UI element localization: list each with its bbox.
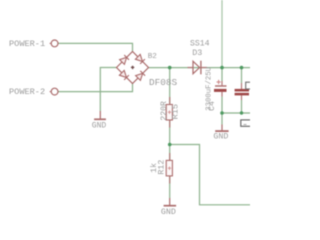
resistor R12 (149, 153, 172, 184)
svg-text:DF08S: DF08S (149, 77, 178, 88)
bridge origin mark (131, 66, 134, 69)
bridge diode bottom-right (136, 71, 146, 81)
junction rail-C4 (220, 66, 224, 70)
label box C (cut off at edge) (246, 82, 252, 89)
bridge diode bottom-left (119, 70, 128, 80)
junction C4-C1 ground (220, 111, 224, 115)
svg-text:GND: GND (161, 208, 176, 217)
svg-text:GND: GND (213, 133, 228, 142)
wire rail down to R15 R12 (169, 68, 171, 160)
svg-text:B2: B2 (148, 53, 158, 61)
label box bottom-right (cut off at edge) (241, 120, 251, 126)
svg-text:POWER-2: POWER-2 (9, 87, 45, 97)
svg-text:D3: D3 (192, 48, 202, 58)
bridge diode top-right (135, 54, 145, 64)
junction R15-R12 tap (168, 143, 172, 147)
wire top vertical input (221, 0, 223, 68)
wire POWER-1 to bridge AC1 (58, 43, 133, 51)
bridge diode top-left (120, 55, 129, 64)
capacitor C1 (235, 83, 249, 100)
svg-text:GND: GND (92, 121, 107, 130)
svg-text:C4: C4 (208, 101, 217, 111)
connector POWER-2 pad (51, 88, 58, 95)
connector POWER-1 pad (51, 40, 58, 47)
wire main rail (149, 67, 251, 69)
ground GND under bridge (92, 111, 107, 130)
svg-text:R15: R15 (171, 104, 181, 119)
wire C4 branch (221, 68, 223, 125)
wire R12 to GND (169, 176, 171, 198)
ground GND under C4 (213, 125, 228, 142)
svg-text:R12: R12 (158, 160, 167, 175)
wire C1 branch (222, 68, 250, 113)
ground GND under R12 (161, 198, 176, 217)
wire feedback tap to right (170, 145, 250, 205)
pin stub POWER-2 (50, 91, 52, 93)
resistor R15 (160, 97, 181, 128)
junction rail-R15 (168, 66, 172, 70)
svg-text:220R: 220R (160, 101, 169, 121)
svg-text:POWER-1: POWER-1 (9, 39, 45, 49)
diode D3 (188, 40, 210, 75)
junction rail-C1 (240, 66, 244, 70)
capacitor C4 polarized (205, 67, 226, 111)
wire POWER-2 to bridge AC2 (58, 84, 133, 92)
pin stub POWER-1 (50, 42, 52, 44)
bridge rectifier B2 diamond edges (117, 52, 149, 84)
junction C1 ground tee (240, 111, 243, 114)
wire bridge minus to GND (100, 68, 116, 112)
